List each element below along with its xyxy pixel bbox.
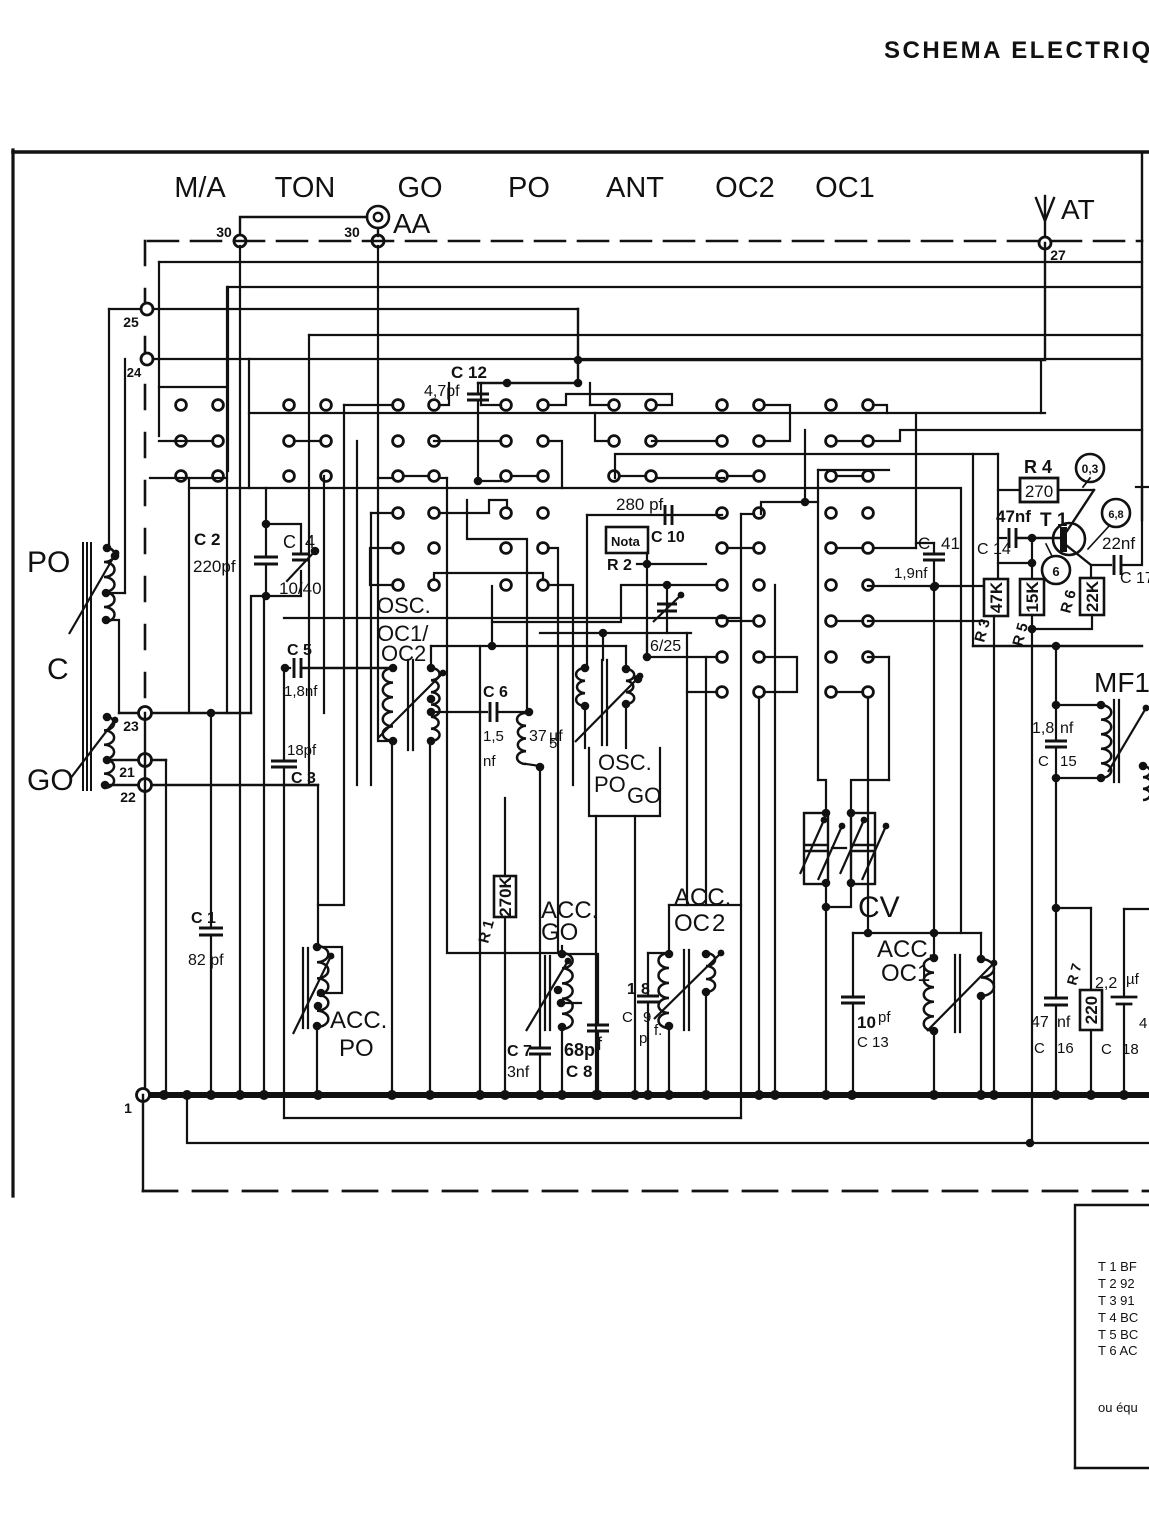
wire R3 bottom to ground — [993, 616, 995, 1095]
arrow MF1 — [1108, 708, 1146, 772]
node 23 — [119, 712, 251, 714]
svg-text:nf: nf — [1060, 720, 1074, 737]
resistor R3 47K — [984, 579, 1008, 616]
wire hook PO r2 right — [548, 441, 562, 488]
svg-text:GO: GO — [397, 172, 442, 204]
svg-text:OSC.: OSC. — [377, 593, 431, 618]
svg-text:220pf: 220pf — [193, 557, 236, 576]
wire PO tap3 — [106, 592, 125, 594]
wire drop x706 — [705, 657, 707, 905]
svg-text:CV: CV — [858, 891, 900, 924]
wire link OC1 row5 — [836, 547, 863, 549]
variable capacitor CV — [804, 813, 828, 884]
svg-text:ANT: ANT — [606, 172, 664, 204]
svg-text:22K: 22K — [1083, 580, 1102, 612]
dashed bottom rail — [143, 1190, 1149, 1193]
wire drop x573 — [548, 585, 573, 785]
svg-text:C: C — [283, 532, 296, 552]
wire link GO row1 — [344, 404, 393, 406]
svg-text:OC: OC — [674, 910, 710, 937]
wire hook OC1 r8 — [868, 656, 889, 658]
wire hook PO r1 left — [481, 404, 501, 406]
wire AT drop — [578, 243, 1045, 360]
wire CV bottoms to ground — [825, 883, 827, 1095]
svg-text:1: 1 — [124, 1100, 132, 1116]
wire link PO row3 — [511, 475, 538, 477]
svg-text:4: 4 — [1139, 1015, 1147, 1032]
coil MF1 secondary — [1143, 766, 1149, 800]
junction — [488, 642, 497, 651]
svg-text:220: 220 — [1082, 996, 1101, 1024]
arrow OSC OC1/OC2 — [378, 673, 443, 738]
svg-text:24: 24 — [127, 365, 142, 380]
arrow L-PO — [69, 553, 116, 634]
svg-text:30: 30 — [216, 224, 232, 240]
circle value 6.8 — [1102, 499, 1130, 527]
wire link TON row2 — [294, 440, 321, 442]
wire drop x371 — [370, 513, 372, 785]
wire OSC bottoms to ground — [391, 741, 393, 1095]
transistor list box — [1075, 1205, 1149, 1468]
svg-text:GO: GO — [541, 919, 578, 946]
svg-text:1,8nf: 1,8nf — [284, 683, 318, 700]
svg-text:PO: PO — [594, 772, 626, 797]
wire ACC OC2 feeds — [668, 905, 670, 953]
svg-text:C 5: C 5 — [287, 642, 312, 659]
wire ACC PO taps — [317, 947, 342, 993]
svg-text:C: C — [622, 1009, 633, 1026]
wire rail y646 to MF1 — [973, 645, 1142, 647]
wire hook ANT r1 left — [590, 404, 609, 406]
arrow ACC GO — [526, 961, 568, 1031]
wire link M/A row3 — [150, 477, 227, 479]
wire C12 top rail y383 — [478, 382, 578, 384]
wire link GO-PO row2 — [434, 440, 501, 442]
svg-text:T 5 BC: T 5 BC — [1098, 1327, 1138, 1342]
wire drop x759 to ground — [758, 697, 760, 1095]
svg-text:M/A: M/A — [174, 172, 226, 204]
wire ACC OC1 top bracket — [853, 932, 981, 934]
wire drop x558 — [548, 548, 558, 953]
wire drop x480 — [479, 646, 481, 1095]
wire drop x492 — [491, 586, 493, 646]
wire C2 column to ground — [263, 596, 265, 1095]
wire R4 right to collector — [1058, 489, 1094, 491]
wire ACC GO column — [561, 1027, 563, 1095]
resistor R5 15K — [1020, 579, 1044, 615]
wire drop x324 — [323, 476, 325, 713]
wire hook OC2 r1-r2 — [764, 405, 790, 441]
wire Nota column — [646, 553, 648, 657]
wire R4 node column — [997, 454, 999, 579]
wire OSC PO/GO legs — [584, 706, 586, 748]
node 27 — [1039, 237, 1051, 249]
wire rail y646 — [431, 645, 626, 647]
svg-text:C 1: C 1 — [191, 910, 216, 927]
coil L-GO — [104, 716, 114, 788]
coil ACC GO — [562, 953, 573, 1029]
wire bottom left — [142, 1095, 144, 1191]
wire riser x590 — [589, 383, 591, 405]
transformer MF1 with C15 — [1055, 646, 1057, 705]
svg-text:C 6: C 6 — [483, 684, 508, 701]
node 30 left — [234, 235, 246, 247]
svg-text:C: C — [47, 653, 69, 686]
svg-text:OC2: OC2 — [715, 172, 775, 204]
wire link OC1 row2 — [836, 440, 863, 442]
wire R2 rail — [637, 563, 706, 565]
ground bus node 1 — [143, 1092, 1149, 1098]
svg-text:C: C — [1101, 1041, 1112, 1058]
ground bus junctions — [159, 1090, 169, 1100]
node 30 right (AA) — [372, 235, 384, 247]
wire MF1 bottom — [1055, 778, 1057, 997]
coil L-PO — [104, 547, 115, 622]
wire ACC GO bracket — [562, 954, 598, 1024]
svg-text:21: 21 — [119, 764, 135, 780]
coil ACC PO — [317, 946, 328, 1027]
wire emitter to 22K — [1090, 565, 1092, 578]
svg-text:C 7: C 7 — [507, 1043, 532, 1060]
wire drop x973 — [972, 454, 974, 646]
svg-text:18: 18 — [1122, 1041, 1139, 1058]
wire rail y488 — [189, 478, 961, 488]
svg-text:nf: nf — [483, 753, 496, 770]
svg-text:23: 23 — [123, 718, 139, 734]
svg-text:C 13: C 13 — [857, 1034, 889, 1051]
circle value 6 — [1042, 556, 1070, 584]
svg-text:25: 25 — [123, 314, 139, 330]
wire rail y657 — [647, 656, 717, 658]
wire rail y618 — [284, 617, 741, 619]
wire R5 R6 bottoms — [1031, 615, 1033, 1143]
wire riser x481 — [480, 383, 482, 405]
wire OSC sec top — [430, 646, 432, 668]
svg-text:10: 10 — [857, 1013, 876, 1032]
wire link OC1 row7 — [836, 620, 863, 622]
svg-text:15K: 15K — [1023, 581, 1042, 613]
svg-text:AT: AT — [1061, 194, 1095, 225]
svg-text:1,9nf: 1,9nf — [894, 565, 928, 582]
wire drop node30 column — [239, 246, 241, 1095]
wire drop x889 to CV — [888, 657, 890, 780]
wire rail y470 — [818, 469, 889, 471]
wire hook GO r4 left — [371, 512, 393, 514]
svg-text:ACC.: ACC. — [330, 1007, 387, 1034]
svg-text:T 2 92: T 2 92 — [1098, 1276, 1135, 1291]
arrow ACC PO — [293, 956, 331, 1034]
svg-text:47nf: 47nf — [996, 507, 1031, 526]
wire rail y335 — [309, 334, 1142, 336]
node 24 — [141, 353, 153, 365]
svg-text:41: 41 — [941, 534, 960, 553]
wire below bus y1143 — [187, 1095, 1149, 1143]
wire C3 to node22 line / drop — [284, 784, 318, 786]
wire rail y287 — [228, 286, 1142, 288]
wire drop x227 — [226, 287, 228, 713]
wire link OC2 row7 — [727, 620, 754, 622]
svg-text:OC2: OC2 — [381, 641, 426, 666]
wire drop x587 — [586, 515, 588, 668]
wire feed ACC GO — [447, 478, 562, 953]
svg-text:1: 1 — [627, 981, 636, 998]
junction — [643, 560, 652, 569]
wire link M/A row2 — [159, 440, 213, 442]
wire hook OC2 r4 — [741, 513, 754, 515]
svg-text:2: 2 — [712, 910, 725, 937]
svg-text:pf: pf — [878, 1009, 891, 1026]
svg-text:C: C — [1038, 753, 1049, 770]
wire hook OC2 r8-r9 — [764, 657, 797, 692]
svg-text:22nf: 22nf — [1102, 534, 1135, 553]
wire drop x344 to ACC PO — [318, 405, 344, 905]
arrow OSC PO/GO — [575, 676, 640, 742]
svg-text:C 2: C 2 — [194, 530, 220, 549]
wire drop x916 — [915, 413, 917, 548]
wire link OC1 row3 — [836, 475, 863, 477]
svg-text:p: p — [639, 1030, 647, 1047]
svg-text:OC1: OC1 — [815, 172, 875, 204]
wire drop x109 to PO coil — [108, 309, 110, 546]
junction — [801, 498, 810, 507]
wire riser x805 — [804, 430, 806, 502]
box Nota R2 — [606, 527, 648, 553]
transformer OSC PO/GO — [576, 668, 585, 706]
svg-text:1,8: 1,8 — [1032, 720, 1054, 737]
wire R7 top — [1056, 907, 1091, 909]
wire drop x527 to 37uF — [467, 500, 527, 711]
svg-text:C 12: C 12 — [451, 363, 487, 382]
svg-text:15: 15 — [1060, 753, 1077, 770]
svg-text:280 pf: 280 pf — [616, 495, 664, 514]
wire link ANT row3 — [619, 475, 646, 477]
border frame — [11, 150, 14, 1196]
svg-text:PO: PO — [339, 1035, 374, 1062]
transformer ACC OC1 — [933, 933, 935, 958]
svg-text:C 14: C 14 — [977, 541, 1011, 558]
wire below bus y1118 — [284, 1117, 741, 1119]
label OSC PO GO box — [589, 748, 660, 816]
svg-text:nf: nf — [1057, 1014, 1071, 1031]
svg-text:ou équ: ou équ — [1098, 1400, 1138, 1415]
wire drop x159 — [158, 262, 160, 436]
junction — [643, 653, 652, 662]
svg-text:22: 22 — [120, 789, 136, 805]
wire bracket M/A top — [159, 386, 227, 388]
wire hook GO r5-r6 — [370, 548, 393, 585]
wire drop AA column — [378, 246, 392, 741]
wire node23 to C2 — [251, 596, 266, 713]
wire drop x818 to CV — [817, 470, 819, 780]
ferrite rod — [82, 543, 84, 790]
wire PO tap4 — [106, 620, 119, 713]
wire rail y262 — [159, 261, 1142, 263]
wire drop x309 — [308, 335, 310, 785]
resistor R6 22K — [1080, 578, 1104, 615]
arrow ACC OC2 — [654, 953, 721, 1019]
wire AA to node 30 — [240, 217, 367, 241]
svg-text:6/25: 6/25 — [650, 638, 681, 655]
wire drop x775 — [774, 585, 776, 1095]
circle value 0.3 — [1076, 454, 1104, 482]
svg-text:SCHEMA ELECTRIQ: SCHEMA ELECTRIQ — [884, 37, 1149, 64]
wire ACC OC1 bottoms — [933, 1031, 935, 1095]
junction — [931, 582, 940, 591]
wire drop x228 — [227, 287, 229, 471]
svg-text:PO: PO — [508, 172, 550, 204]
wire link GO-PO row6 — [434, 573, 543, 580]
wire base bias — [998, 562, 1032, 564]
wire rail y586 — [868, 585, 984, 587]
svg-text:ACC.: ACC. — [674, 884, 731, 911]
svg-text:16: 16 — [1057, 1040, 1074, 1057]
wire rail y413 — [249, 412, 1045, 414]
svg-text:18pf: 18pf — [287, 742, 317, 759]
wire link PO-ANT row1 — [548, 394, 672, 405]
wire link ANT row3 ext — [656, 477, 724, 479]
wire drop x687 — [686, 633, 688, 905]
node 21 — [107, 759, 166, 761]
svg-text:T 4 BC: T 4 BC — [1098, 1310, 1138, 1325]
wire rail y515 280pf — [587, 514, 722, 516]
wire link OC1 row9 — [836, 691, 863, 693]
wire drop x189 — [188, 488, 190, 713]
wire link OC2 row3 — [727, 475, 754, 477]
wire rail y585 OC2 feed — [492, 585, 717, 622]
svg-text:6,8: 6,8 — [1108, 509, 1123, 521]
svg-text:4,7pf: 4,7pf — [424, 383, 460, 400]
node 25 — [141, 303, 153, 315]
wire CV tops — [818, 780, 826, 813]
svg-text:ACC.: ACC. — [877, 936, 934, 963]
wire R4 left — [998, 489, 1020, 491]
wire hook OC2 r9 — [687, 691, 717, 693]
wire hook GO r1 right — [439, 383, 449, 405]
svg-text:37: 37 — [529, 728, 547, 745]
junction — [1026, 1139, 1035, 1148]
wire hook OC1 r1 — [873, 405, 887, 413]
svg-text:GO: GO — [27, 764, 74, 797]
svg-text:30: 30 — [344, 224, 360, 240]
svg-text:C 8: C 8 — [566, 1062, 592, 1081]
svg-text:µf: µf — [1126, 971, 1140, 988]
svg-text:µf: µf — [549, 728, 563, 745]
svg-text:270K: 270K — [496, 875, 515, 916]
junction — [663, 581, 672, 590]
wire rail y621 — [868, 620, 984, 622]
svg-text:MF1: MF1 — [1094, 667, 1149, 698]
svg-text:47: 47 — [1031, 1014, 1049, 1031]
svg-text:27: 27 — [1050, 247, 1066, 263]
wire hook GO r3 left — [378, 477, 393, 479]
resistor R1 270K — [494, 876, 516, 917]
wire drop x647 — [646, 633, 648, 657]
transformer OSC OC1/OC2 — [383, 668, 393, 741]
wire x961 drop — [960, 490, 962, 933]
svg-text:T 6 AC: T 6 AC — [1098, 1343, 1138, 1358]
wire hook GO r3 right — [439, 477, 447, 479]
svg-text:TON: TON — [275, 172, 336, 204]
wire riser x249 — [248, 359, 250, 488]
arrow ACC OC1 — [927, 963, 994, 1031]
terminal AA — [367, 206, 389, 228]
svg-text:C 10: C 10 — [651, 529, 685, 546]
svg-text:T 3 91: T 3 91 — [1098, 1293, 1135, 1308]
wire rail y430 — [873, 430, 1142, 441]
junction — [599, 629, 608, 638]
svg-text:C: C — [1034, 1040, 1045, 1057]
svg-text:GO: GO — [627, 783, 661, 808]
wire drop x868 to ACC OC1 — [867, 697, 869, 933]
switch matrix contacts — [176, 400, 187, 411]
wire hook ANT r2 left — [595, 413, 609, 441]
arrow L-GO — [70, 720, 115, 779]
antenna AT — [1044, 196, 1046, 243]
wire node column lower — [144, 713, 146, 1095]
svg-text:270: 270 — [1025, 482, 1053, 501]
wire rail y633 — [540, 632, 691, 634]
svg-text:R 4: R 4 — [1024, 457, 1052, 477]
svg-text:82 pf: 82 pf — [188, 952, 224, 969]
wire rail y359 node24 — [147, 358, 1142, 360]
wire rail y309 node25 — [109, 308, 578, 310]
svg-text:68p: 68p — [564, 1040, 595, 1060]
svg-text:R 2: R 2 — [607, 557, 632, 574]
wire link ANT-OC2 row2 — [652, 440, 717, 442]
wire link GO-PO row4 — [439, 500, 507, 513]
svg-text:47K: 47K — [987, 581, 1006, 613]
svg-text:Nota: Nota — [611, 534, 641, 549]
svg-text:3nf: 3nf — [507, 1064, 530, 1081]
wire link OC2 row5 — [727, 547, 754, 549]
wire drop x626 — [625, 646, 627, 669]
svg-text:PO: PO — [27, 546, 70, 579]
wire link GO row3 — [403, 475, 429, 477]
svg-text:T 1 BF: T 1 BF — [1098, 1259, 1137, 1274]
svg-text:0,3: 0,3 — [1082, 462, 1099, 476]
svg-text:AA: AA — [393, 208, 431, 239]
wire drop x603 — [602, 633, 604, 660]
wire drop x741 — [740, 514, 742, 1118]
dashed vertical rail — [144, 241, 147, 712]
svg-text:C 17: C 17 — [1120, 570, 1149, 587]
transformer ACC OC2 — [659, 953, 670, 1028]
svg-text:6: 6 — [1052, 564, 1059, 579]
dashed rail from node 30 — [148, 240, 1142, 243]
wire rail y454 — [615, 454, 998, 478]
wire drop x357 — [356, 441, 358, 785]
node 22 — [105, 784, 318, 786]
wire rail y502 — [761, 502, 818, 514]
wire hook OC1 r5 — [873, 547, 916, 549]
svg-text:1,5: 1,5 — [483, 728, 504, 745]
